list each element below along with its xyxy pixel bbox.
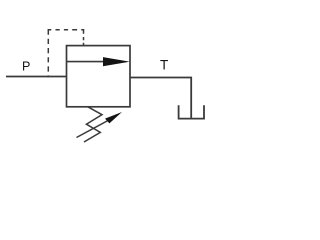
flow path arrowhead xyxy=(103,57,130,66)
adjustment arrow shaft xyxy=(77,121,109,138)
wire P supply line xyxy=(6,76,67,78)
tank symbol xyxy=(179,105,204,118)
svg-text:T: T xyxy=(160,58,168,73)
pilot line dashed vertical from P line up to corner xyxy=(47,31,49,78)
valve body (relief valve square) xyxy=(67,46,131,107)
spring (zigzag) xyxy=(84,107,102,142)
pilot line dashed horizontal top run xyxy=(48,29,85,31)
wire T return line with corner down xyxy=(130,78,191,119)
svg-text:P: P xyxy=(22,60,30,74)
flow path arrow shaft inside valve xyxy=(67,61,113,63)
pilot line dashed vertical into valve top xyxy=(83,29,85,46)
adjustment arrowhead xyxy=(105,112,122,123)
